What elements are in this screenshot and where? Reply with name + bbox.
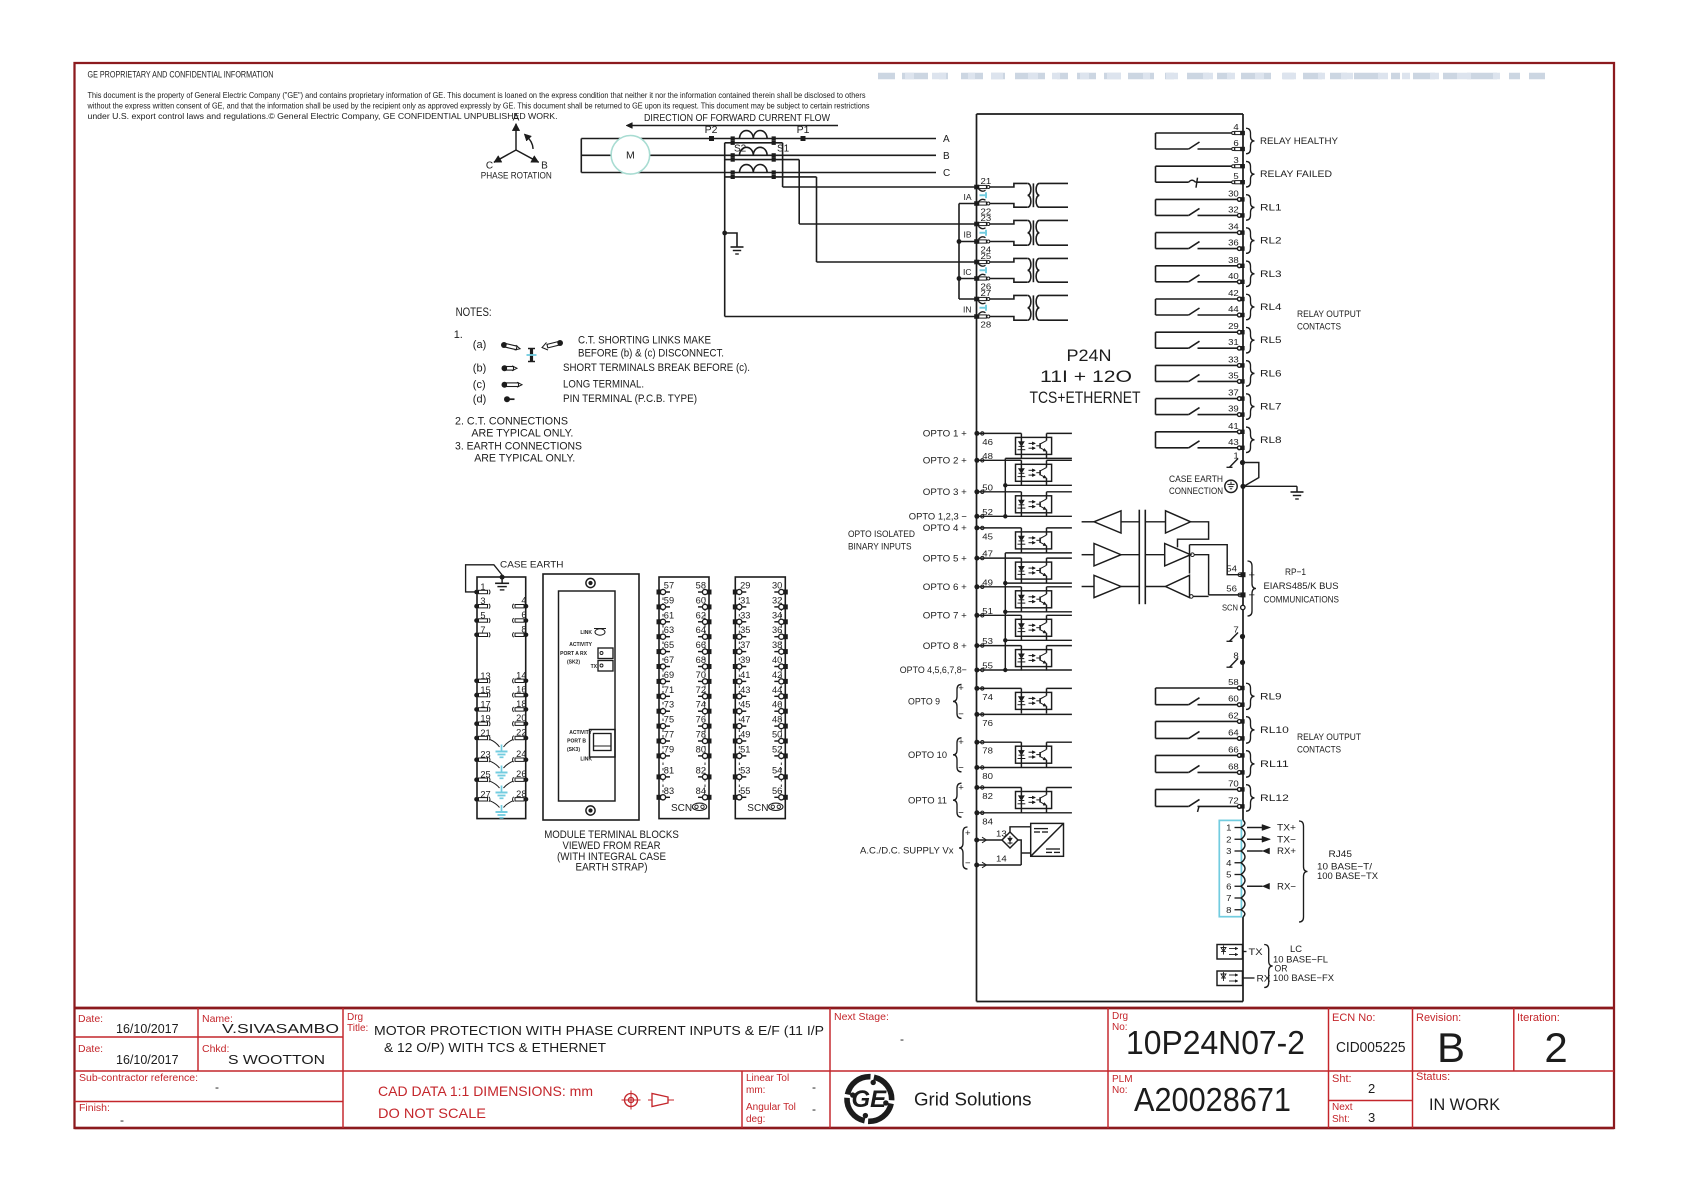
svg-text:+: + <box>958 683 964 694</box>
svg-text:OPTO 4,5,6,7,8−: OPTO 4,5,6,7,8− <box>900 665 967 676</box>
svg-text:COMMUNICATIONS: COMMUNICATIONS <box>1264 595 1340 606</box>
svg-text:13: 13 <box>480 671 490 681</box>
svg-text:52: 52 <box>982 507 993 517</box>
svg-text:4: 4 <box>1226 858 1232 868</box>
svg-text:M: M <box>626 150 635 162</box>
svg-text:LONG TERMINAL.: LONG TERMINAL. <box>563 379 644 391</box>
svg-text:RL12: RL12 <box>1260 793 1289 804</box>
svg-text:66: 66 <box>696 640 706 650</box>
svg-text:2: 2 <box>1544 1024 1567 1071</box>
svg-text:OPTO 2 +: OPTO 2 + <box>923 456 967 467</box>
svg-text:78: 78 <box>982 746 993 756</box>
svg-text:Date:: Date: <box>78 1013 103 1025</box>
svg-text:16/10/2017: 16/10/2017 <box>116 1022 179 1036</box>
svg-text:6: 6 <box>1233 138 1239 148</box>
svg-text:53: 53 <box>982 636 993 646</box>
svg-text:46: 46 <box>772 700 782 710</box>
svg-text:6: 6 <box>521 610 526 620</box>
svg-text:82: 82 <box>696 765 706 775</box>
svg-text:26: 26 <box>516 769 526 779</box>
svg-text:56: 56 <box>772 786 782 796</box>
svg-text:57: 57 <box>664 581 674 591</box>
svg-text:3: 3 <box>1233 155 1239 165</box>
svg-text:74: 74 <box>982 692 993 702</box>
svg-text:2: 2 <box>1368 1081 1375 1096</box>
svg-text:40: 40 <box>1228 271 1239 281</box>
svg-text:51: 51 <box>740 744 750 754</box>
svg-text:−: − <box>965 858 971 869</box>
svg-text:63: 63 <box>664 625 674 635</box>
svg-text:58: 58 <box>1228 677 1239 687</box>
svg-text:41: 41 <box>740 670 750 680</box>
svg-text:45: 45 <box>982 531 993 541</box>
svg-text:TX+: TX+ <box>1277 823 1296 834</box>
svg-text:DIRECTION OF FORWARD CURREN: DIRECTION OF FORWARD CURRENT FLOW <box>644 112 830 124</box>
svg-text:53: 53 <box>740 765 750 775</box>
svg-text:This document is the property: This document is the property of General… <box>88 90 866 100</box>
svg-text:TCS+ETHERNET: TCS+ETHERNET <box>1030 388 1141 407</box>
svg-text:59: 59 <box>664 595 674 605</box>
svg-text:23: 23 <box>480 750 490 760</box>
svg-text:RL1: RL1 <box>1260 202 1282 213</box>
svg-text:CASE EARTH: CASE EARTH <box>1169 474 1223 485</box>
svg-text:TX: TX <box>591 664 598 670</box>
svg-text:V.SIVASAMBO: V.SIVASAMBO <box>222 1022 339 1036</box>
svg-text:11I + 12O: 11I + 12O <box>1040 367 1132 386</box>
svg-text:29: 29 <box>740 581 750 591</box>
svg-text:32: 32 <box>772 595 782 605</box>
svg-text:100 BASE−FX: 100 BASE−FX <box>1273 973 1335 984</box>
svg-text:44: 44 <box>1228 304 1239 314</box>
svg-text:No:: No: <box>1112 1085 1128 1096</box>
svg-text:64: 64 <box>1228 727 1239 737</box>
svg-text:62: 62 <box>696 610 706 620</box>
svg-text:30: 30 <box>772 581 782 591</box>
svg-text:72: 72 <box>1228 795 1239 805</box>
svg-text:60: 60 <box>696 595 706 605</box>
svg-text:Iteration:: Iteration: <box>1517 1012 1560 1024</box>
svg-text:44: 44 <box>772 685 782 695</box>
svg-text:C: C <box>943 168 950 179</box>
svg-text:Sub-contractor reference:: Sub-contractor reference: <box>79 1072 198 1084</box>
svg-text:(a): (a) <box>473 339 486 351</box>
svg-text:OPTO 1,2,3 −: OPTO 1,2,3 − <box>909 512 967 523</box>
svg-text:14: 14 <box>516 670 526 680</box>
svg-text:70: 70 <box>696 670 706 680</box>
svg-text:37: 37 <box>740 640 750 650</box>
svg-text:IA: IA <box>963 192 971 202</box>
svg-text:Linear Tol: Linear Tol <box>746 1073 789 1084</box>
svg-text:39: 39 <box>740 655 750 665</box>
svg-text:A: A <box>943 134 950 145</box>
svg-text:7: 7 <box>480 625 485 635</box>
svg-text:61: 61 <box>664 610 674 620</box>
svg-text:OPTO 3 +: OPTO 3 + <box>923 487 967 498</box>
svg-text:56: 56 <box>1226 584 1237 594</box>
svg-text:OPTO 5 +: OPTO 5 + <box>923 553 967 564</box>
svg-text:14: 14 <box>996 854 1007 864</box>
svg-text:70: 70 <box>1228 778 1239 788</box>
svg-text:34: 34 <box>1228 222 1239 232</box>
svg-text:Date:: Date: <box>78 1043 103 1055</box>
svg-text:8: 8 <box>521 624 526 634</box>
svg-text:4: 4 <box>521 596 526 606</box>
svg-text:PORT B: PORT B <box>567 739 586 745</box>
svg-text:2. C.T. CONNECTIONS: 2. C.T. CONNECTIONS <box>455 416 568 428</box>
svg-text:(c): (c) <box>473 379 486 391</box>
svg-text:81: 81 <box>664 765 674 775</box>
svg-text:55: 55 <box>982 661 993 671</box>
svg-text:77: 77 <box>664 730 674 740</box>
svg-text:Sht:: Sht: <box>1332 1073 1352 1085</box>
svg-text:under U.S. export control laws: under U.S. export control laws and regul… <box>88 111 558 121</box>
svg-text:S WOOTTON: S WOOTTON <box>228 1053 325 1067</box>
svg-text:B: B <box>1437 1024 1465 1071</box>
svg-text:1: 1 <box>1226 823 1232 833</box>
svg-text:RJ45: RJ45 <box>1329 849 1353 860</box>
svg-text:75: 75 <box>664 715 674 725</box>
svg-text:35: 35 <box>1228 370 1239 380</box>
svg-text:21: 21 <box>981 176 992 186</box>
svg-text:50: 50 <box>772 730 782 740</box>
svg-text:1.: 1. <box>454 329 463 341</box>
svg-text:SCN: SCN <box>671 803 692 814</box>
svg-text:OPTO ISOLATED: OPTO ISOLATED <box>848 529 915 540</box>
svg-text:48: 48 <box>982 451 993 461</box>
svg-text:17: 17 <box>480 699 490 709</box>
svg-text:RL8: RL8 <box>1260 435 1282 446</box>
svg-text:3: 3 <box>1368 1110 1375 1125</box>
svg-text:64: 64 <box>696 625 706 635</box>
svg-text:LC: LC <box>1290 944 1302 955</box>
svg-text:RL4: RL4 <box>1260 302 1282 313</box>
svg-text:5: 5 <box>1226 870 1232 880</box>
svg-text:GE PROPRIETARY AND CONFIDENTIA: GE PROPRIETARY AND CONFIDENTIAL INFORMAT… <box>88 70 274 80</box>
svg-text:RELAY FAILED: RELAY FAILED <box>1260 169 1332 180</box>
svg-text:+: + <box>965 828 971 839</box>
svg-text:RELAY HEALTHY: RELAY HEALTHY <box>1260 136 1339 147</box>
svg-text:RL10: RL10 <box>1260 725 1289 736</box>
svg-text:DO NOT SCALE: DO NOT SCALE <box>378 1105 486 1121</box>
svg-text:50: 50 <box>982 482 993 492</box>
svg-text:84: 84 <box>982 816 993 826</box>
svg-text:-: - <box>215 1080 219 1094</box>
svg-text:PHASE ROTATION: PHASE ROTATION <box>481 171 552 182</box>
svg-text:31: 31 <box>740 595 750 605</box>
svg-text:82: 82 <box>982 791 993 801</box>
svg-text:Status:: Status: <box>1416 1071 1450 1083</box>
svg-text:42: 42 <box>772 670 782 680</box>
svg-text:OPTO 4 +: OPTO 4 + <box>923 523 967 534</box>
svg-text:C.T. SHORTING LINKS MAKE: C.T. SHORTING LINKS MAKE <box>578 335 711 347</box>
svg-text:40: 40 <box>772 655 782 665</box>
svg-text:P24N: P24N <box>1067 346 1112 365</box>
svg-text:RL11: RL11 <box>1260 759 1289 770</box>
svg-text:28: 28 <box>981 320 992 330</box>
svg-text:55: 55 <box>740 786 750 796</box>
svg-text:100 BASE−TX: 100 BASE−TX <box>1317 871 1379 882</box>
svg-text:TX−: TX− <box>1277 834 1296 845</box>
svg-text:deg:: deg: <box>746 1114 765 1125</box>
svg-text:ARE TYPICAL ONLY.: ARE TYPICAL ONLY. <box>474 453 575 465</box>
svg-text:Next Stage:: Next Stage: <box>834 1011 889 1023</box>
svg-text:16: 16 <box>516 685 526 695</box>
svg-text:73: 73 <box>664 700 674 710</box>
svg-text:36: 36 <box>772 625 782 635</box>
svg-text:Finish:: Finish: <box>79 1102 110 1114</box>
svg-text:GE: GE <box>851 1086 887 1113</box>
svg-text:−: − <box>958 709 964 720</box>
svg-text:& 12 O/P) WITH TCS & ETHERNET: & 12 O/P) WITH TCS & ETHERNET <box>384 1040 606 1055</box>
svg-text:-: - <box>900 1032 904 1046</box>
svg-text:2: 2 <box>1226 834 1232 844</box>
svg-text:Revision:: Revision: <box>1416 1012 1461 1024</box>
svg-text:37: 37 <box>1228 388 1239 398</box>
svg-text:74: 74 <box>696 700 706 710</box>
svg-text:CONNECTION: CONNECTION <box>1169 486 1223 497</box>
svg-text:33: 33 <box>740 610 750 620</box>
svg-text:P2: P2 <box>705 124 718 136</box>
svg-text:30: 30 <box>1228 188 1239 198</box>
svg-text:CID005225: CID005225 <box>1336 1040 1406 1056</box>
svg-text:54: 54 <box>1226 564 1237 574</box>
svg-text:Next: Next <box>1332 1102 1353 1113</box>
svg-text:68: 68 <box>696 655 706 665</box>
svg-text:RL9: RL9 <box>1260 691 1282 702</box>
svg-text:46: 46 <box>982 437 993 447</box>
svg-text:OPTO 8 +: OPTO 8 + <box>923 641 967 652</box>
svg-text:49: 49 <box>982 577 993 587</box>
svg-text:67: 67 <box>664 655 674 665</box>
svg-text:PLM: PLM <box>1112 1074 1133 1085</box>
svg-text:CASE EARTH: CASE EARTH <box>500 560 564 571</box>
svg-text:+: + <box>958 782 964 793</box>
svg-text:Chkd:: Chkd: <box>202 1043 229 1055</box>
svg-text:PIN TERMINAL (P.C.B. TYPE): PIN TERMINAL (P.C.B. TYPE) <box>563 393 697 405</box>
svg-text:RX+: RX+ <box>1277 846 1296 857</box>
svg-text:66: 66 <box>1228 744 1239 754</box>
svg-text:76: 76 <box>696 715 706 725</box>
svg-text:16/10/2017: 16/10/2017 <box>116 1053 179 1067</box>
svg-text:1: 1 <box>480 582 485 592</box>
svg-text:+: + <box>958 737 964 748</box>
svg-text:79: 79 <box>664 744 674 754</box>
svg-text:47: 47 <box>740 715 750 725</box>
svg-text:21: 21 <box>480 728 490 738</box>
svg-text:Grid Solutions: Grid Solutions <box>914 1090 1032 1110</box>
svg-text:80: 80 <box>696 744 706 754</box>
svg-text:24: 24 <box>516 749 526 759</box>
svg-text:CONTACTS: CONTACTS <box>1297 322 1341 333</box>
svg-text:B: B <box>943 151 950 162</box>
svg-text:-: - <box>812 1080 816 1094</box>
svg-text:3. EARTH CONNECTIONS: 3. EARTH CONNECTIONS <box>455 441 582 453</box>
svg-text:6: 6 <box>1226 881 1232 891</box>
svg-text:8: 8 <box>1226 905 1232 915</box>
svg-text:EIARS485/K BUS: EIARS485/K BUS <box>1264 581 1339 592</box>
svg-text:20: 20 <box>516 713 526 723</box>
svg-text:38: 38 <box>1228 255 1239 265</box>
svg-text:48: 48 <box>772 715 782 725</box>
svg-text:54: 54 <box>772 765 782 775</box>
svg-text:23: 23 <box>981 213 992 223</box>
svg-text:OPTO 11: OPTO 11 <box>908 795 947 806</box>
svg-text:32: 32 <box>1228 204 1239 214</box>
svg-text:62: 62 <box>1228 710 1239 720</box>
svg-text:72: 72 <box>696 685 706 695</box>
svg-text:Drg: Drg <box>347 1012 363 1023</box>
svg-text:43: 43 <box>740 685 750 695</box>
svg-text:PORT A RX: PORT A RX <box>560 651 588 657</box>
svg-text:83: 83 <box>664 786 674 796</box>
svg-text:IB: IB <box>963 229 971 239</box>
svg-text:52: 52 <box>772 744 782 754</box>
svg-text:71: 71 <box>664 685 674 695</box>
svg-text:SCN: SCN <box>747 803 768 814</box>
svg-text:Title:: Title: <box>347 1023 368 1034</box>
svg-text:CONTACTS: CONTACTS <box>1297 745 1341 756</box>
svg-text:TX: TX <box>1249 947 1264 958</box>
svg-text:(b): (b) <box>473 363 486 375</box>
svg-text:7: 7 <box>1226 893 1232 903</box>
svg-text:(d): (d) <box>473 394 486 406</box>
svg-text:51: 51 <box>982 606 993 616</box>
svg-text:60: 60 <box>1228 694 1239 704</box>
svg-text:ACTIVITY: ACTIVITY <box>569 642 592 648</box>
svg-text:69: 69 <box>664 670 674 680</box>
svg-text:LINK: LINK <box>580 630 592 636</box>
svg-text:Angular Tol: Angular Tol <box>746 1102 796 1113</box>
svg-text:RL7: RL7 <box>1260 402 1282 413</box>
svg-text:33: 33 <box>1228 354 1239 364</box>
svg-text:1: 1 <box>1233 451 1239 461</box>
svg-text:IC: IC <box>963 267 972 277</box>
svg-text:Sht:: Sht: <box>1332 1114 1350 1125</box>
svg-text:3: 3 <box>1226 846 1232 856</box>
svg-text:10P24N07-2: 10P24N07-2 <box>1126 1024 1305 1061</box>
svg-text:ARE TYPICAL ONLY.: ARE TYPICAL ONLY. <box>471 428 573 440</box>
svg-text:−: − <box>958 808 964 819</box>
svg-text:OPTO 10: OPTO 10 <box>908 750 947 761</box>
svg-text:27: 27 <box>480 789 490 799</box>
svg-text:A: A <box>513 113 520 124</box>
svg-text:29: 29 <box>1228 321 1239 331</box>
svg-text:NOTES:: NOTES: <box>456 307 492 319</box>
svg-text:76: 76 <box>982 718 993 728</box>
svg-text:80: 80 <box>982 771 993 781</box>
svg-text:5: 5 <box>480 611 485 621</box>
svg-text:42: 42 <box>1228 288 1239 298</box>
svg-text:58: 58 <box>696 581 706 591</box>
svg-text:RELAY OUTPUT: RELAY OUTPUT <box>1297 309 1361 320</box>
svg-text:RP−1: RP−1 <box>1285 567 1306 578</box>
svg-text:SCN: SCN <box>1222 603 1238 613</box>
svg-text:OPTO 9: OPTO 9 <box>908 697 940 708</box>
svg-text:8: 8 <box>1233 650 1239 660</box>
svg-text:65: 65 <box>664 640 674 650</box>
svg-text:RL3: RL3 <box>1260 269 1282 280</box>
svg-text:IN WORK: IN WORK <box>1429 1095 1501 1114</box>
svg-text:49: 49 <box>740 730 750 740</box>
svg-text:31: 31 <box>1228 337 1239 347</box>
svg-text:without the express written co: without the express written consent of G… <box>87 101 870 111</box>
svg-text:7: 7 <box>1233 625 1239 635</box>
svg-text:3: 3 <box>480 596 485 606</box>
svg-text:ECN No:: ECN No: <box>1332 1012 1375 1024</box>
svg-text:mm:: mm: <box>746 1085 765 1096</box>
svg-text:IN: IN <box>963 304 972 314</box>
svg-text:-: - <box>120 1113 124 1127</box>
svg-text:P1: P1 <box>797 124 810 136</box>
svg-text:84: 84 <box>696 786 706 796</box>
svg-text:5: 5 <box>1233 171 1239 181</box>
svg-text:15: 15 <box>480 685 490 695</box>
svg-text:(SK3): (SK3) <box>567 747 580 753</box>
svg-text:35: 35 <box>740 625 750 635</box>
svg-text:OPTO 6 +: OPTO 6 + <box>923 582 967 593</box>
svg-text:25: 25 <box>981 251 992 261</box>
svg-text:41: 41 <box>1228 421 1239 431</box>
svg-text:RL6: RL6 <box>1260 368 1282 379</box>
svg-text:EARTH STRAP): EARTH STRAP) <box>576 862 648 874</box>
svg-text:27: 27 <box>981 288 992 298</box>
svg-text:18: 18 <box>516 699 526 709</box>
svg-text:RELAY OUTPUT: RELAY OUTPUT <box>1297 732 1361 743</box>
svg-text:Drg: Drg <box>1112 1011 1128 1022</box>
svg-text:BEFORE (b) & (c) DISCONNECT.: BEFORE (b) & (c) DISCONNECT. <box>578 348 724 360</box>
svg-text:A20028671: A20028671 <box>1134 1081 1291 1118</box>
svg-text:78: 78 <box>696 730 706 740</box>
svg-text:39: 39 <box>1228 404 1239 414</box>
svg-text:36: 36 <box>1228 238 1239 248</box>
svg-text:(SK2): (SK2) <box>567 660 580 666</box>
svg-text:43: 43 <box>1228 437 1239 447</box>
svg-text:RL2: RL2 <box>1260 236 1282 247</box>
svg-text:SHORT TERMINALS BREAK BEFORE (: SHORT TERMINALS BREAK BEFORE (c). <box>563 362 750 374</box>
svg-text:38: 38 <box>772 640 782 650</box>
svg-text:RL5: RL5 <box>1260 335 1282 346</box>
svg-text:-: - <box>812 1102 816 1116</box>
svg-text:22: 22 <box>516 728 526 738</box>
svg-text:OPTO 1 +: OPTO 1 + <box>923 429 967 440</box>
svg-text:RX−: RX− <box>1277 881 1296 892</box>
svg-text:OPTO 7 +: OPTO 7 + <box>923 611 967 622</box>
svg-text:CAD DATA 1:1 DIMENSIONS: mm: CAD DATA 1:1 DIMENSIONS: mm <box>378 1083 593 1099</box>
svg-text:MOTOR PROTECTION WITH PHASE CU: MOTOR PROTECTION WITH PHASE CURRENT INPU… <box>374 1023 824 1038</box>
svg-text:34: 34 <box>772 610 782 620</box>
svg-text:19: 19 <box>480 714 490 724</box>
svg-text:28: 28 <box>516 789 526 799</box>
svg-text:47: 47 <box>982 549 993 559</box>
svg-text:25: 25 <box>480 770 490 780</box>
svg-text:−: − <box>958 762 964 773</box>
svg-text:4: 4 <box>1233 122 1239 132</box>
svg-text:45: 45 <box>740 700 750 710</box>
svg-text:A.C./D.C. SUPPLY Vx: A.C./D.C. SUPPLY Vx <box>860 846 954 857</box>
svg-text:BINARY INPUTS: BINARY INPUTS <box>848 542 912 553</box>
svg-text:68: 68 <box>1228 761 1239 771</box>
